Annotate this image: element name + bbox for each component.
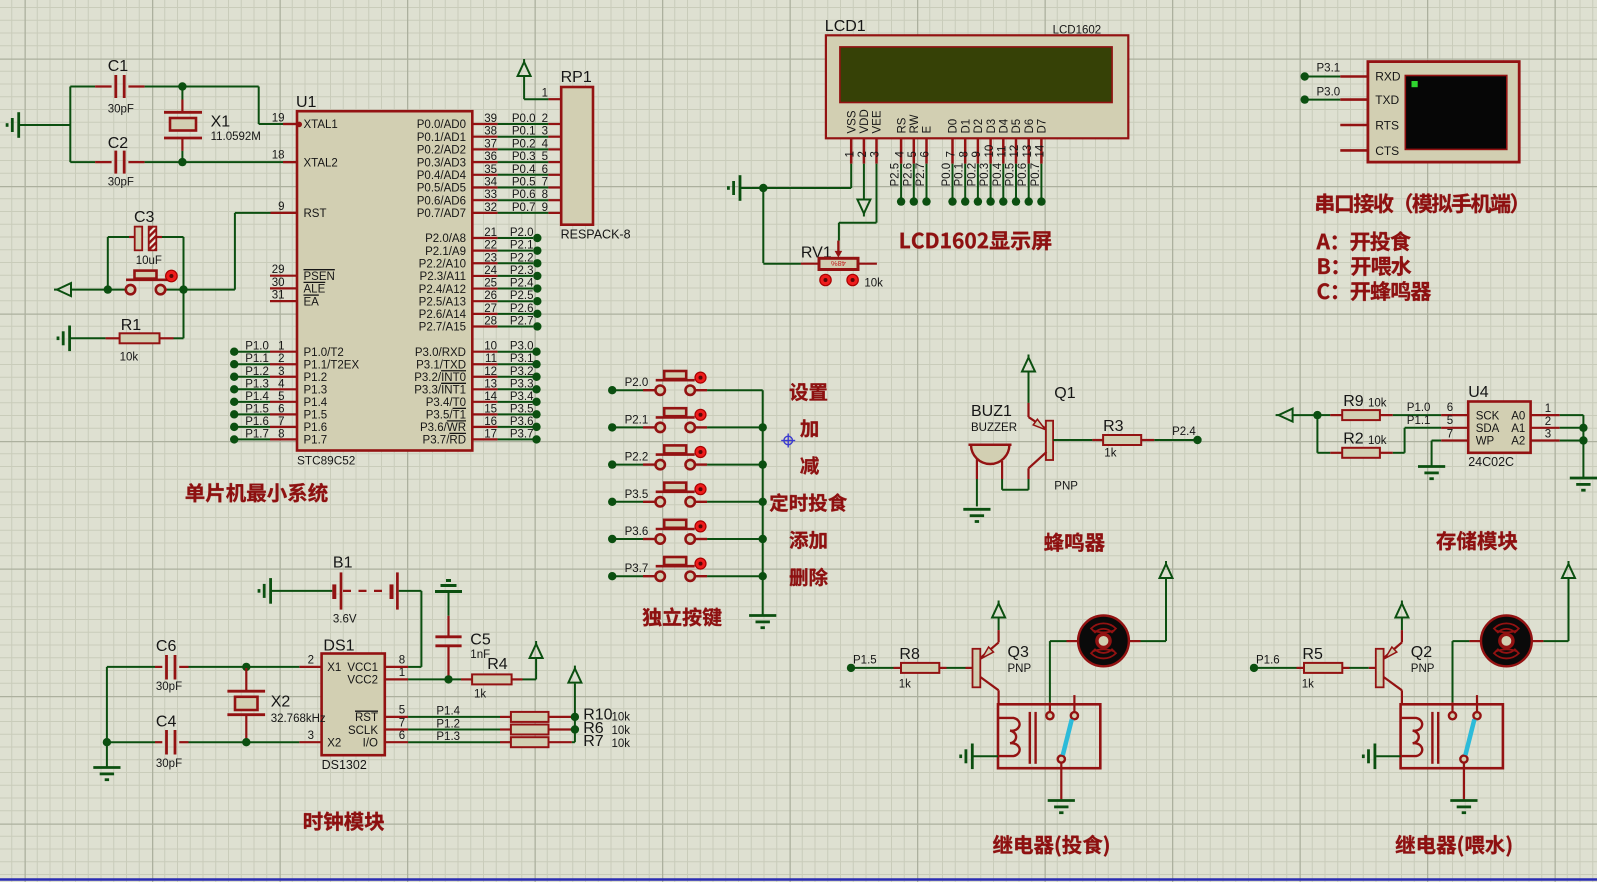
svg-text:10uF: 10uF	[136, 255, 162, 267]
svg-text:P2.6: P2.6	[902, 163, 914, 187]
svg-text:B1: B1	[333, 555, 353, 572]
svg-text:2: 2	[857, 151, 869, 157]
svg-text:VDD: VDD	[859, 109, 871, 133]
svg-text:DS1302: DS1302	[322, 758, 367, 772]
svg-text:E: E	[922, 126, 934, 134]
svg-text:Q3: Q3	[1008, 644, 1029, 661]
svg-text:R3: R3	[1103, 418, 1124, 435]
svg-text:6: 6	[399, 730, 405, 742]
svg-text:P3.0: P3.0	[1317, 87, 1341, 99]
svg-text:2: 2	[542, 113, 548, 125]
svg-text:XTAL2: XTAL2	[304, 157, 338, 169]
svg-text:P1.2: P1.2	[245, 366, 269, 378]
svg-text:P1.5: P1.5	[245, 403, 269, 415]
svg-text:21: 21	[484, 227, 497, 239]
svg-text:P0.0: P0.0	[941, 163, 953, 187]
svg-text:P2.4/A12: P2.4/A12	[419, 284, 466, 296]
svg-text:P2.2: P2.2	[625, 452, 649, 464]
svg-text:37: 37	[484, 138, 497, 150]
svg-text:P0.7: P0.7	[512, 202, 536, 214]
svg-text:8: 8	[542, 189, 548, 201]
svg-text:P0.5: P0.5	[512, 177, 536, 189]
svg-text:CTS: CTS	[1375, 144, 1399, 158]
svg-text:P1.0: P1.0	[1407, 402, 1431, 414]
svg-text:P1.0: P1.0	[245, 341, 269, 353]
svg-text:4: 4	[894, 151, 906, 158]
svg-text:10: 10	[484, 341, 497, 353]
svg-text:16: 16	[484, 416, 497, 428]
svg-text:P2.3: P2.3	[510, 265, 534, 277]
svg-text:8: 8	[958, 151, 970, 157]
svg-text:P1.7: P1.7	[245, 428, 269, 440]
svg-text:12: 12	[484, 366, 497, 378]
svg-text:P3.7: P3.7	[625, 563, 649, 575]
svg-text:P0.4: P0.4	[992, 162, 1004, 186]
svg-text:P0.0: P0.0	[512, 113, 536, 125]
svg-text:P1.5: P1.5	[304, 410, 328, 422]
svg-text:9: 9	[971, 151, 983, 157]
svg-text:U4: U4	[1468, 384, 1489, 401]
svg-text:D7: D7	[1037, 119, 1049, 134]
svg-text:7: 7	[399, 717, 405, 729]
svg-text:P3.3/INT1: P3.3/INT1	[414, 384, 466, 396]
svg-text:1: 1	[542, 88, 548, 100]
svg-text:5: 5	[907, 151, 919, 157]
svg-text:36: 36	[484, 151, 497, 163]
svg-text:R4: R4	[487, 656, 508, 673]
svg-text:P2.4: P2.4	[1172, 426, 1196, 438]
svg-text:12: 12	[1009, 145, 1021, 158]
svg-text:48%: 48%	[831, 259, 846, 268]
svg-text:P0.4: P0.4	[512, 164, 536, 176]
svg-text:P1.6: P1.6	[1256, 654, 1280, 666]
svg-text:WP: WP	[1476, 436, 1495, 448]
svg-text:R8: R8	[899, 646, 920, 663]
svg-text:R7: R7	[583, 733, 604, 750]
svg-text:3.6V: 3.6V	[333, 613, 357, 625]
svg-text:TXD: TXD	[1375, 93, 1399, 107]
svg-text:D4: D4	[999, 118, 1011, 133]
svg-text:P2.6/A14: P2.6/A14	[419, 309, 467, 321]
svg-text:PNP: PNP	[1054, 481, 1078, 493]
svg-text:3: 3	[870, 151, 882, 157]
svg-text:1k: 1k	[474, 689, 486, 701]
svg-text:A0: A0	[1511, 410, 1525, 422]
svg-text:P1.6: P1.6	[304, 422, 328, 434]
svg-text:7: 7	[542, 177, 548, 189]
svg-text:9: 9	[278, 201, 284, 213]
svg-text:SDA: SDA	[1476, 423, 1500, 435]
svg-text:P2.7: P2.7	[510, 315, 534, 327]
svg-text:10k: 10k	[612, 711, 631, 723]
svg-text:5: 5	[399, 705, 405, 717]
svg-text:C4: C4	[156, 714, 177, 731]
svg-text:2: 2	[1545, 416, 1551, 428]
svg-text:30pF: 30pF	[108, 104, 134, 116]
svg-text:P1.1: P1.1	[1407, 415, 1431, 427]
svg-text:A2: A2	[1511, 436, 1525, 448]
svg-text:38: 38	[484, 126, 497, 138]
svg-text:P3.0/RXD: P3.0/RXD	[415, 347, 466, 359]
svg-text:PNP: PNP	[1008, 663, 1032, 675]
svg-text:P0.1/AD1: P0.1/AD1	[417, 132, 466, 144]
svg-text:13: 13	[1022, 145, 1034, 158]
svg-text:DS1: DS1	[323, 638, 354, 655]
svg-text:VEE: VEE	[872, 110, 884, 133]
svg-text:RXD: RXD	[1375, 69, 1401, 83]
svg-text:P0.2/AD2: P0.2/AD2	[417, 145, 466, 157]
svg-text:7: 7	[946, 151, 958, 157]
svg-text:10k: 10k	[120, 352, 139, 364]
svg-text:P2.1/A9: P2.1/A9	[425, 246, 466, 258]
svg-text:RTS: RTS	[1375, 119, 1399, 133]
svg-text:P2.7: P2.7	[915, 163, 927, 187]
svg-text:RP1: RP1	[561, 69, 592, 86]
svg-text:P0.6/AD6: P0.6/AD6	[417, 195, 466, 207]
svg-text:2: 2	[278, 353, 284, 365]
svg-text:30pF: 30pF	[156, 681, 182, 693]
svg-text:P2.0: P2.0	[510, 227, 534, 239]
svg-text:P1.6: P1.6	[245, 416, 269, 428]
svg-text:32: 32	[484, 202, 497, 214]
svg-text:1k: 1k	[1302, 679, 1314, 691]
svg-text:P3.7/RD: P3.7/RD	[423, 435, 466, 447]
svg-text:11: 11	[997, 146, 1009, 158]
svg-text:24C02C: 24C02C	[1468, 455, 1514, 469]
svg-text:P2.1: P2.1	[625, 414, 649, 426]
svg-text:VSS: VSS	[846, 110, 858, 133]
svg-text:14: 14	[1035, 144, 1047, 157]
svg-text:10: 10	[984, 145, 996, 158]
svg-text:4: 4	[542, 138, 549, 150]
svg-text:6: 6	[542, 164, 548, 176]
svg-text:R5: R5	[1302, 646, 1323, 663]
svg-text:P1.2: P1.2	[304, 372, 328, 384]
svg-text:27: 27	[484, 303, 497, 315]
svg-text:P0.5: P0.5	[1005, 163, 1017, 187]
svg-text:R1: R1	[121, 317, 142, 334]
svg-text:C6: C6	[156, 638, 177, 655]
svg-text:XTAL1: XTAL1	[304, 119, 338, 131]
svg-text:D5: D5	[1011, 119, 1023, 134]
svg-text:11: 11	[485, 353, 497, 365]
svg-text:Q1: Q1	[1054, 385, 1075, 402]
svg-text:PNP: PNP	[1411, 663, 1435, 675]
svg-text:8: 8	[278, 428, 284, 440]
svg-text:D2: D2	[973, 119, 985, 134]
svg-text:P3.1: P3.1	[510, 353, 534, 365]
svg-text:VCC2: VCC2	[347, 675, 378, 687]
svg-text:P0.2: P0.2	[966, 163, 978, 187]
svg-text:10k: 10k	[1368, 398, 1387, 410]
svg-text:P2.0: P2.0	[625, 377, 649, 389]
svg-text:P3.6: P3.6	[510, 416, 534, 428]
svg-text:VCC1: VCC1	[347, 662, 378, 674]
svg-text:34: 34	[484, 177, 497, 189]
svg-text:ALE: ALE	[304, 284, 326, 296]
svg-text:P3.1/TXD: P3.1/TXD	[416, 359, 466, 371]
svg-text:P0.1: P0.1	[954, 163, 966, 187]
svg-text:P2.2/A10: P2.2/A10	[419, 258, 466, 270]
svg-text:SCK: SCK	[1476, 410, 1500, 422]
svg-text:P3.3: P3.3	[510, 378, 534, 390]
svg-text:1k: 1k	[899, 679, 911, 691]
svg-text:C5: C5	[470, 632, 491, 649]
svg-text:35: 35	[484, 164, 497, 176]
svg-text:29: 29	[272, 264, 285, 276]
svg-text:1: 1	[399, 667, 405, 679]
svg-text:P2.3/A11: P2.3/A11	[420, 271, 466, 283]
svg-text:P3.7: P3.7	[510, 428, 534, 440]
svg-text:P1.1/T2EX: P1.1/T2EX	[304, 359, 360, 371]
svg-text:P0.4/AD4: P0.4/AD4	[417, 170, 467, 182]
svg-text:5: 5	[542, 151, 548, 163]
svg-text:24: 24	[484, 265, 497, 277]
svg-text:Q2: Q2	[1411, 644, 1432, 661]
svg-text:28: 28	[484, 315, 497, 327]
svg-text:P0.0/AD0: P0.0/AD0	[417, 119, 466, 131]
svg-text:5: 5	[1447, 415, 1453, 427]
svg-text:P1.0/T2: P1.0/T2	[304, 347, 344, 359]
svg-text:P1.3: P1.3	[304, 384, 328, 396]
svg-text:STC89C52: STC89C52	[297, 454, 355, 468]
svg-text:A1: A1	[1511, 423, 1525, 435]
svg-text:P0.3: P0.3	[512, 151, 536, 163]
svg-text:26: 26	[484, 290, 497, 302]
svg-text:25: 25	[484, 278, 497, 290]
svg-text:10k: 10k	[612, 738, 631, 750]
svg-text:X2: X2	[271, 694, 291, 711]
svg-text:EA: EA	[304, 296, 320, 308]
svg-text:RS: RS	[896, 117, 908, 133]
svg-text:3: 3	[278, 366, 284, 378]
svg-text:6: 6	[1447, 402, 1453, 414]
svg-text:P2.5: P2.5	[890, 163, 902, 187]
svg-text:D3: D3	[986, 119, 998, 134]
svg-text:6: 6	[920, 151, 932, 157]
svg-text:30: 30	[272, 277, 285, 289]
svg-text:LCD1: LCD1	[825, 18, 866, 35]
svg-text:3: 3	[308, 730, 314, 742]
svg-text:P1.4: P1.4	[304, 397, 328, 409]
svg-text:17: 17	[484, 428, 497, 440]
svg-text:7: 7	[1447, 429, 1453, 441]
svg-text:P3.2/INT0: P3.2/INT0	[414, 372, 466, 384]
svg-text:31: 31	[272, 290, 285, 302]
svg-text:3: 3	[1545, 429, 1551, 441]
svg-text:1: 1	[844, 151, 856, 157]
svg-text:P0.3: P0.3	[979, 163, 991, 187]
svg-text:X1: X1	[327, 662, 341, 674]
svg-text:13: 13	[484, 378, 497, 390]
svg-text:P1.2: P1.2	[436, 718, 460, 730]
svg-text:RST: RST	[304, 208, 327, 220]
svg-text:P0.6: P0.6	[512, 189, 536, 201]
svg-text:2: 2	[308, 655, 314, 667]
svg-text:32.768kHz: 32.768kHz	[271, 713, 326, 725]
svg-text:P0.1: P0.1	[512, 126, 536, 138]
svg-text:P2.0/A8: P2.0/A8	[425, 233, 466, 245]
svg-text:BUZZER: BUZZER	[971, 422, 1017, 434]
svg-text:P1.7: P1.7	[304, 435, 328, 447]
svg-text:PSEN: PSEN	[304, 271, 335, 283]
svg-text:X1: X1	[211, 114, 231, 131]
svg-text:D1: D1	[960, 119, 972, 134]
svg-text:U1: U1	[296, 94, 317, 111]
svg-text:1: 1	[1545, 403, 1551, 415]
svg-text:P3.5/T1: P3.5/T1	[426, 410, 466, 422]
svg-text:18: 18	[272, 150, 285, 162]
svg-text:D0: D0	[948, 119, 960, 134]
svg-text:P3.2: P3.2	[510, 366, 534, 378]
svg-text:3: 3	[542, 126, 548, 138]
svg-text:P2.4: P2.4	[510, 278, 534, 290]
svg-text:P0.5/AD5: P0.5/AD5	[417, 183, 466, 195]
svg-text:P0.6: P0.6	[1017, 163, 1029, 187]
svg-text:P1.3: P1.3	[436, 731, 460, 743]
svg-text:R9: R9	[1343, 393, 1364, 410]
svg-text:P2.7/A15: P2.7/A15	[419, 322, 466, 334]
svg-text:9: 9	[542, 202, 548, 214]
svg-text:X2: X2	[327, 737, 341, 749]
svg-text:P2.5/A13: P2.5/A13	[419, 296, 466, 308]
svg-text:33: 33	[484, 189, 497, 201]
svg-text:P0.7/AD7: P0.7/AD7	[417, 208, 466, 220]
svg-text:23: 23	[484, 252, 497, 264]
svg-text:RST: RST	[355, 712, 378, 724]
svg-text:5: 5	[278, 391, 284, 403]
svg-text:P3.4/T0: P3.4/T0	[426, 397, 466, 409]
svg-text:8: 8	[399, 655, 405, 667]
svg-text:11.0592M: 11.0592M	[211, 131, 261, 143]
svg-text:R2: R2	[1343, 431, 1364, 448]
svg-text:30pF: 30pF	[108, 177, 134, 189]
svg-text:P3.6: P3.6	[625, 526, 649, 538]
svg-text:P3.1: P3.1	[1317, 63, 1341, 75]
svg-text:10k: 10k	[864, 277, 883, 289]
svg-text:P2.5: P2.5	[510, 290, 534, 302]
svg-text:P2.1: P2.1	[510, 240, 534, 252]
svg-text:P3.0: P3.0	[510, 341, 534, 353]
svg-text:C2: C2	[108, 135, 129, 152]
svg-text:15: 15	[484, 403, 497, 415]
svg-text:P1.1: P1.1	[245, 353, 269, 365]
svg-text:39: 39	[484, 113, 497, 125]
svg-text:7: 7	[278, 416, 284, 428]
svg-text:SCLK: SCLK	[348, 725, 378, 737]
svg-text:22: 22	[484, 240, 497, 252]
svg-text:P2.2: P2.2	[510, 252, 534, 264]
svg-text:P1.4: P1.4	[245, 391, 269, 403]
svg-text:P3.4: P3.4	[510, 391, 534, 403]
svg-text:RESPACK-8: RESPACK-8	[561, 228, 631, 242]
svg-text:P3.5: P3.5	[625, 489, 649, 501]
svg-text:30pF: 30pF	[156, 758, 182, 770]
svg-text:P1.4: P1.4	[436, 706, 460, 718]
svg-text:BUZ1: BUZ1	[971, 403, 1012, 420]
svg-text:10k: 10k	[1368, 435, 1387, 447]
svg-text:4: 4	[278, 378, 285, 390]
svg-text:P2.6: P2.6	[510, 303, 534, 315]
svg-text:14: 14	[484, 391, 497, 403]
svg-text:I/O: I/O	[363, 737, 378, 749]
svg-text:C3: C3	[134, 209, 155, 226]
svg-text:P0.3/AD3: P0.3/AD3	[417, 157, 466, 169]
svg-text:P1.5: P1.5	[853, 654, 877, 666]
svg-text:19: 19	[272, 112, 285, 124]
svg-text:1: 1	[278, 341, 284, 353]
svg-text:P3.5: P3.5	[510, 403, 534, 415]
svg-text:RW: RW	[909, 114, 921, 133]
svg-text:C1: C1	[108, 58, 129, 75]
svg-text:P0.2: P0.2	[512, 138, 536, 150]
svg-text:D6: D6	[1024, 119, 1036, 134]
svg-text:10k: 10k	[612, 725, 631, 737]
svg-text:P0.7: P0.7	[1030, 163, 1042, 187]
svg-text:1k: 1k	[1104, 448, 1116, 460]
svg-text:P3.6/WR: P3.6/WR	[420, 422, 466, 434]
svg-text:6: 6	[278, 403, 284, 415]
svg-text:P1.3: P1.3	[245, 378, 269, 390]
